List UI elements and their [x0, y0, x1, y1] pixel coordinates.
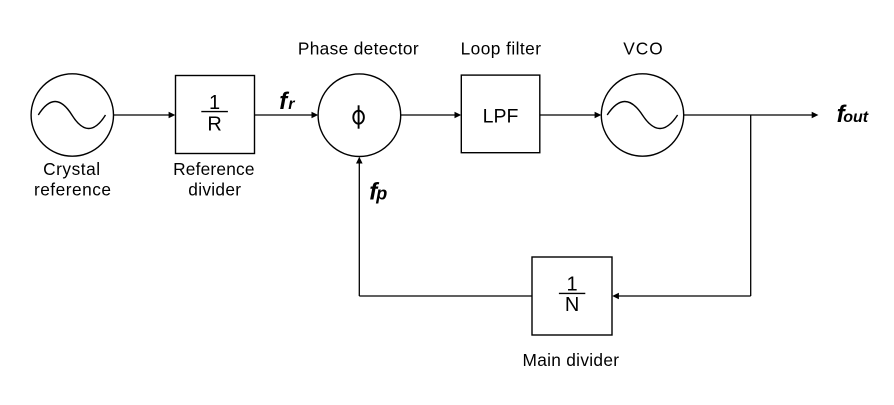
svg-text:Loop filter: Loop filter	[461, 39, 542, 59]
svg-text:out: out	[843, 109, 869, 126]
wire main divider to feedback riser	[359, 295, 532, 297]
svg-text:1: 1	[209, 92, 220, 114]
arrowhead into loop filter	[455, 112, 462, 119]
wire loop filter to VCO	[540, 114, 596, 116]
phi symbol	[353, 111, 364, 124]
svg-text:Main divider: Main divider	[523, 350, 620, 370]
svg-text:1: 1	[567, 274, 578, 296]
svg-text:divider: divider	[188, 179, 241, 199]
arrowhead into main divider	[612, 293, 619, 300]
wire feedback horizontal to main divider	[618, 295, 751, 297]
wire crystal to reference divider	[114, 114, 170, 116]
box loop filter LPF	[461, 75, 540, 153]
arrowhead into reference divider	[169, 112, 176, 119]
sine wave inside crystal reference	[38, 102, 105, 129]
svg-text:r: r	[288, 96, 295, 113]
svg-text:p: p	[375, 183, 387, 203]
arrowhead into phase detector	[312, 112, 319, 119]
svg-text:Reference: Reference	[173, 159, 255, 179]
box main divider 1/N	[532, 257, 612, 335]
svg-text:R: R	[207, 113, 221, 135]
arrowhead into VCO	[595, 112, 602, 119]
mixer U1 phase detector circle	[318, 74, 401, 157]
svg-text:VCO: VCO	[623, 39, 663, 59]
oscillator G2 VCO circle	[601, 74, 683, 156]
svg-text:reference: reference	[34, 179, 112, 199]
svg-text:LPF: LPF	[483, 105, 519, 127]
wire feedback vertical from output node	[750, 115, 752, 296]
arrowhead output	[812, 112, 819, 119]
sine wave inside VCO	[607, 102, 677, 129]
arrowhead into phase detector bottom	[356, 157, 363, 164]
oscillator G1 crystal reference circle	[31, 74, 113, 156]
wire reference divider to phase detector	[255, 114, 313, 116]
svg-text:N: N	[565, 294, 579, 316]
wire feedback riser up to phase detector	[358, 162, 360, 296]
wire VCO to output	[684, 114, 813, 116]
box reference divider	[176, 76, 255, 154]
svg-text:Phase detector: Phase detector	[298, 39, 419, 59]
wire phase detector to loop filter	[401, 114, 456, 116]
svg-text:Crystal: Crystal	[43, 159, 101, 179]
